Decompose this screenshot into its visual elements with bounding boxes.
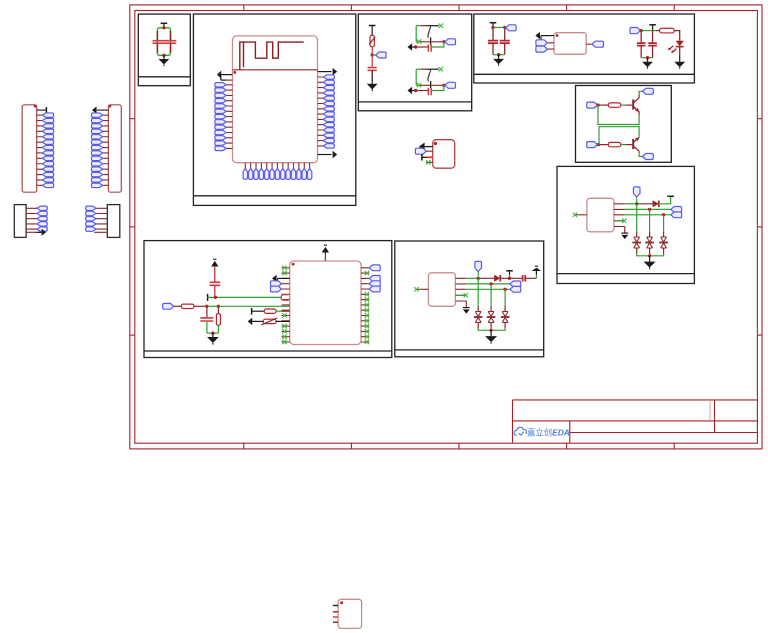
CN3 net flags xyxy=(37,206,47,210)
resistor R vertical with slash xyxy=(370,35,374,47)
wire top rail cap group xyxy=(493,26,505,28)
bottom pin stubs U1 xyxy=(245,163,309,169)
wire flag to R1 xyxy=(598,104,608,106)
CN4 net flags xyxy=(86,206,96,210)
power bar input cap group xyxy=(490,22,497,24)
U3 left pin stubs xyxy=(282,268,290,342)
wire to R5 xyxy=(252,310,265,312)
IC U3 pin1 dot xyxy=(292,263,295,266)
junction node LED caps bottom xyxy=(646,56,649,59)
wire R1 to Q1 xyxy=(621,104,626,106)
junction node cap group bottom xyxy=(497,53,500,56)
switch S middle bar wire xyxy=(416,84,419,86)
wire Q1 emitter loop xyxy=(638,112,640,115)
ground left column xyxy=(371,70,373,83)
CN3 pin stubs xyxy=(26,208,37,229)
LED green channel xyxy=(488,312,494,323)
wire R6 to U3 xyxy=(276,320,290,322)
wire Q2 collector loop xyxy=(599,127,639,145)
junction node led3 xyxy=(503,288,506,291)
CN2 net flags xyxy=(92,113,103,117)
logo cloud EDA xyxy=(514,427,526,435)
block box ESP32 module xyxy=(193,14,355,205)
net flag switch xyxy=(445,39,456,45)
ground LED caps xyxy=(647,58,649,62)
net flag U3 L4 xyxy=(271,281,282,287)
border reference ticks bottom xyxy=(243,443,245,449)
IC U4 body xyxy=(433,140,455,169)
junction node crystal top xyxy=(162,26,165,29)
module U1 antenna separator xyxy=(233,69,318,71)
power bar Y1 top xyxy=(161,22,168,24)
wire pin3 rail xyxy=(625,214,671,216)
ground divider xyxy=(212,333,214,337)
power arrow up U3 top pin xyxy=(324,253,326,262)
regulator U2 body xyxy=(554,33,586,55)
port arrow switch ground xyxy=(408,43,413,50)
switch S left bracket wire xyxy=(415,26,417,42)
U3 right pin stubs xyxy=(361,268,369,342)
U pin5 to ground xyxy=(624,227,626,233)
no-connect X U3 L13 xyxy=(282,329,286,333)
right pin stubs U1 xyxy=(318,77,324,146)
wire loop crystal xyxy=(157,28,170,56)
wire led column 2 xyxy=(490,284,492,306)
block box crystal circuit xyxy=(138,14,190,86)
LED D1 emission arrows xyxy=(669,46,676,53)
module U1 pin1 dot xyxy=(233,71,236,74)
U2 output pin stub xyxy=(586,43,592,45)
junction node line1 xyxy=(214,296,217,299)
LED green channel xyxy=(647,237,653,248)
net flag LED group xyxy=(630,28,641,34)
resistor R5 xyxy=(264,309,276,313)
wire led column 2 xyxy=(649,209,651,231)
junction node switch left xyxy=(414,89,417,92)
capacitor C9 branch xyxy=(214,285,216,297)
switch S wire top bar xyxy=(416,25,420,27)
wire diode to power bar xyxy=(659,196,671,204)
no-connect X U3 L15 xyxy=(282,340,286,344)
wire Q1 collector to flag xyxy=(638,95,640,98)
wire led column 1 xyxy=(477,278,479,306)
wire led column 3 xyxy=(504,289,506,306)
wire R2 to Q2 xyxy=(621,144,626,146)
wire divider bottom rail xyxy=(207,332,219,334)
net flag U4 pin2 xyxy=(415,148,426,154)
LED red channel xyxy=(634,237,640,248)
wire flag elbow to capacitor xyxy=(431,42,444,47)
connector CN2 pin1 dot xyxy=(108,105,111,108)
svg-text:嘉立创EDA: 嘉立创EDA xyxy=(527,427,570,437)
net flag U2 out xyxy=(592,41,604,47)
wire diode to capacitor xyxy=(500,277,522,279)
border reference ticks left xyxy=(130,118,135,120)
junction node led2 xyxy=(648,208,651,211)
resistor R1 xyxy=(608,103,621,107)
junction node Q2 base xyxy=(597,143,600,146)
wire node to flag xyxy=(372,54,375,56)
CN4 bottom pin stub xyxy=(94,231,107,233)
wire resistor to LED corner xyxy=(674,31,680,41)
U5 pin2 stub xyxy=(333,611,338,613)
IC U4 pin1 dot xyxy=(434,142,437,145)
RGB controller U body xyxy=(587,198,614,232)
module U1 antenna meander xyxy=(240,42,304,70)
wire pin2 rail xyxy=(625,208,671,210)
wire branches to caps xyxy=(493,27,505,40)
module U1 ESP32 body xyxy=(233,36,318,163)
power bar CN1 pin1 xyxy=(37,109,47,111)
port arrow U1 top left xyxy=(221,74,233,76)
connector CN4 body xyxy=(107,205,120,238)
net flag RGB data 1 xyxy=(671,207,682,213)
power bar R-C column xyxy=(369,25,376,27)
ground LED D1 xyxy=(679,47,681,55)
net flag RGB data 2 xyxy=(671,212,682,218)
net flag U3 R1 xyxy=(369,265,380,271)
net flag Q1 base xyxy=(587,102,598,108)
power bar line1 xyxy=(207,294,209,301)
junction node cap group left xyxy=(491,26,494,29)
no-connect X U3 R2 xyxy=(365,271,369,275)
diode D supply xyxy=(478,277,494,279)
net flag U3 L5 xyxy=(271,286,282,292)
port arrow U1 top right xyxy=(318,71,332,73)
resistor R3 xyxy=(181,304,194,308)
title block light divider xyxy=(709,400,711,421)
power arrow up RGB xyxy=(532,268,542,271)
junction node led1 xyxy=(477,277,480,280)
ground input cap group xyxy=(498,55,500,59)
no-connect X U pin4 xyxy=(614,220,623,222)
net flag RGB data 1 xyxy=(510,281,521,287)
junction node T tap xyxy=(508,277,511,280)
ground RGB common xyxy=(649,256,651,262)
power bar U4 pin3 xyxy=(422,156,428,158)
wire led column 3 xyxy=(663,215,665,232)
wire LED top rail xyxy=(641,30,656,32)
left net flags U1 xyxy=(215,83,226,87)
bottom net flags U1 xyxy=(243,168,247,179)
wire pin3 rail xyxy=(466,288,510,290)
CN1 net flags xyxy=(42,113,53,117)
switch S middle bar wire xyxy=(416,41,419,43)
LED blue channel xyxy=(502,312,508,323)
wires LEDs to common rail xyxy=(637,248,664,254)
U pin stubs right xyxy=(614,204,625,227)
block box RGB LED right xyxy=(557,166,694,283)
net flag vertical xyxy=(475,261,482,271)
capacitor C7 xyxy=(637,43,646,46)
power arrow up C9 xyxy=(211,261,218,267)
net flag U3 R5 xyxy=(369,286,380,292)
U pin stubs right xyxy=(455,278,466,301)
U4 pin3 stub bright xyxy=(428,156,433,158)
no-connect X U3 L2 xyxy=(282,271,286,275)
U5 pin1 stub xyxy=(333,605,338,607)
wire pin1 rail xyxy=(625,203,637,205)
block box sensor bottom left xyxy=(144,241,392,358)
wires LEDs to common rail xyxy=(478,323,505,329)
switch S lever xyxy=(428,26,431,38)
IC U5 body standalone xyxy=(338,599,362,628)
ground RGB common xyxy=(490,330,492,336)
wire Q2 emitter to flag xyxy=(638,151,640,153)
U5 pin3 stub xyxy=(333,616,338,618)
sheet inner border frame xyxy=(135,11,758,444)
net flag U2 in 2 xyxy=(536,46,548,52)
border reference ticks top xyxy=(243,5,245,11)
net flag left column xyxy=(376,52,387,58)
wire capacitor to ground arrow xyxy=(416,46,429,48)
resistor R4 divider xyxy=(217,306,219,313)
port arrow U4 pin1 xyxy=(425,146,433,148)
junction node switch right xyxy=(442,84,445,87)
junction node cap group right xyxy=(503,26,506,29)
resistor R2 xyxy=(608,142,621,146)
capacitor C switch xyxy=(428,88,431,95)
title block cell divider verticals xyxy=(570,400,715,443)
junction node LED common xyxy=(648,254,651,257)
junction node led2 xyxy=(489,282,492,285)
net flag vertical xyxy=(633,187,640,197)
wire to R6 xyxy=(255,320,263,322)
ground crystal xyxy=(163,55,165,59)
IC U5 pin1 dot xyxy=(340,601,343,604)
no-connect X U3 L10 xyxy=(282,313,286,317)
switch S left bracket wire xyxy=(415,69,417,85)
connector CN1 pin1 dot xyxy=(34,105,37,108)
IC U3 body xyxy=(290,261,361,345)
port arrow U3 L3 xyxy=(278,277,290,279)
border reference ticks right xyxy=(757,118,762,120)
junction node LED group xyxy=(640,29,643,32)
wire caps LED group xyxy=(641,31,652,43)
junction node divider 2 xyxy=(217,305,220,308)
U4 pin4 stub xyxy=(426,161,433,163)
net flag Q2 base xyxy=(587,142,598,148)
wire led column 1 xyxy=(636,204,638,232)
diode D supply xyxy=(637,203,653,205)
port arrow switch ground xyxy=(408,87,413,94)
no-connect X U left pin xyxy=(575,214,587,216)
sheet outer border frame xyxy=(130,5,762,449)
resistor R6 with slash xyxy=(263,319,276,323)
capacitor C5 xyxy=(488,41,498,44)
junction node switch left xyxy=(414,45,417,48)
wire R3 to node1 xyxy=(194,305,207,307)
no-connect X switch top xyxy=(439,24,443,28)
no-connect X marks U3 right xyxy=(365,292,369,296)
net flag switch xyxy=(445,82,456,88)
title block outline xyxy=(513,400,758,443)
wire flag to R2 xyxy=(599,144,609,146)
wire node1 to node2 xyxy=(207,305,219,307)
no-connect X switch middle xyxy=(417,39,421,43)
capacitor C10 divider xyxy=(206,306,208,318)
switch S wire top bar xyxy=(416,68,420,70)
LED red channel xyxy=(475,312,481,323)
capacitor C left column xyxy=(371,55,373,67)
wire flag elbow to capacitor xyxy=(431,85,444,90)
net flag Q2 emitter xyxy=(643,154,654,160)
right net flags U1 xyxy=(323,75,334,79)
power bar R5 branch xyxy=(251,308,253,315)
U2 input pin stubs xyxy=(547,43,554,49)
junction node led3 xyxy=(662,213,665,216)
wire capacitor to ground arrow xyxy=(416,90,429,92)
wire line1 to U3 xyxy=(208,296,281,298)
capacitor C switch xyxy=(428,44,431,51)
no-connect X U4 pin4 xyxy=(426,160,430,164)
CN2 pin stubs xyxy=(103,115,109,185)
connector CN3 body xyxy=(14,205,26,238)
CN4 pin stubs xyxy=(96,208,107,229)
block box switches xyxy=(358,14,471,111)
no-connect X switch top xyxy=(439,67,443,71)
switch S lever xyxy=(428,70,431,82)
connector CN2 body xyxy=(108,105,121,192)
no-connect X U3 L12 xyxy=(282,324,286,328)
port arrow U1 bottom right xyxy=(318,154,332,156)
U pin5 to ground xyxy=(465,301,467,307)
net flag input group xyxy=(506,25,516,31)
CN3 bottom pin with arrow xyxy=(26,231,36,233)
U4 pin2 stub xyxy=(426,150,432,152)
power bar RGB tap xyxy=(506,270,513,272)
block box power/USB top right xyxy=(474,14,695,83)
junction node left column xyxy=(371,53,374,56)
capacitor C8 xyxy=(648,43,657,46)
net flag Q1 collector xyxy=(643,88,654,94)
no-connect X U3 L1 xyxy=(282,266,286,270)
wire capacitor to power arrow xyxy=(525,277,536,279)
left pin stubs U1 xyxy=(226,85,232,149)
wires LED caps bottom rail xyxy=(641,46,652,58)
no-connect X U3 L14 xyxy=(282,335,286,339)
net flag divider input xyxy=(163,303,174,309)
junction node switch right xyxy=(442,40,445,43)
no-connect X switch middle xyxy=(417,83,421,87)
wire pin1 rail xyxy=(466,277,478,279)
connector CN1 body xyxy=(22,105,37,192)
regulator U2 pin1 dot xyxy=(556,34,559,37)
junction node Q1 base xyxy=(596,103,599,106)
block box RGB LED bottom middle xyxy=(395,241,544,357)
wire line2 to U3 xyxy=(218,305,289,307)
wire flag to R3 xyxy=(174,305,181,307)
port arrow CN2 pin1 xyxy=(97,109,108,111)
transistor Q2 PNP xyxy=(632,139,634,149)
net flag RGB data 2 xyxy=(510,286,521,292)
capacitor C6 xyxy=(500,41,510,44)
net flag U3 R3 xyxy=(369,276,380,282)
RGB controller U body xyxy=(428,273,455,307)
wire R5 to U3 xyxy=(276,310,282,312)
crystal X1 with load capacitors xyxy=(157,31,170,53)
CN1 pin stubs xyxy=(37,115,43,185)
resistor R LED xyxy=(660,28,675,33)
no-connect X U left pin xyxy=(416,288,428,290)
no-connect X U pin4 xyxy=(455,294,464,296)
junction node divider bottom xyxy=(211,331,214,334)
net flag U3 R4 xyxy=(369,281,380,287)
transistor Q1 NPN xyxy=(632,99,634,109)
junction node crystal bottom xyxy=(162,54,165,57)
junction node led1 xyxy=(635,202,638,205)
port arrow R6 branch xyxy=(248,318,253,325)
net port red U3 L6 xyxy=(281,295,288,301)
wires caps to bottom rail xyxy=(493,43,505,55)
wire resistor to node xyxy=(371,47,373,55)
U5 pin4 stub xyxy=(333,621,338,623)
block box transistor drivers xyxy=(576,86,672,163)
port arrow U2 top left xyxy=(541,35,554,37)
wire pin2 rail xyxy=(466,283,510,285)
net flag U2 in 1 xyxy=(536,40,548,46)
junction node LED common xyxy=(489,329,492,332)
LED D1 xyxy=(676,41,684,47)
junction node divider 1 xyxy=(205,305,208,308)
power bar LED group xyxy=(649,24,656,26)
power bar RGB xyxy=(667,195,674,197)
LED blue channel xyxy=(661,237,667,248)
capacitor C decouple xyxy=(523,275,526,281)
